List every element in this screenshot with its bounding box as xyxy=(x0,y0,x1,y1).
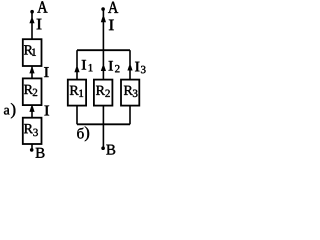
main stem to B (right) xyxy=(102,106,104,149)
resistor R2 (left) xyxy=(23,78,42,105)
main stem wire A to R2 (right) xyxy=(102,9,104,80)
resistor R3 (right) xyxy=(121,80,139,106)
branch wire 1 top xyxy=(76,50,78,79)
branch wire 3 top xyxy=(129,50,131,79)
current arrow I (left top) xyxy=(29,19,34,24)
label R3 (right) xyxy=(124,86,133,95)
current arrow I1 xyxy=(74,67,79,72)
label I3 xyxy=(135,62,139,71)
label R2 (left) xyxy=(24,85,33,94)
node A (left) xyxy=(30,10,34,14)
node A (right) xyxy=(101,7,105,11)
label R1 (left) xyxy=(24,45,33,54)
wire R1-R2 xyxy=(31,66,33,78)
resistor R1 (left) xyxy=(23,39,42,66)
resistor R3 (left) xyxy=(23,118,42,144)
label B (left) xyxy=(36,148,45,158)
wire R3 to B xyxy=(31,144,33,150)
current arrow I (left mid2) xyxy=(29,107,34,112)
resistor R2 (right) xyxy=(94,80,113,106)
label b) xyxy=(77,128,83,139)
label I2 xyxy=(109,61,113,70)
branch wire 1 bottom xyxy=(76,106,78,125)
label R2 (right) xyxy=(96,86,105,95)
label I (left mid1) xyxy=(44,67,49,77)
wire R2-R3 xyxy=(31,105,33,118)
label a) xyxy=(4,108,10,115)
label I (left top) xyxy=(37,19,42,29)
current arrow I (right top) xyxy=(101,17,106,22)
label A (right) xyxy=(108,2,118,13)
label I (left mid2) xyxy=(44,106,49,116)
current arrow I2 xyxy=(101,66,106,71)
wire A to R1 xyxy=(31,12,33,40)
label I (right top) xyxy=(109,20,114,30)
current arrow I (left mid1) xyxy=(29,68,34,73)
resistor R1 (right) xyxy=(68,80,86,106)
label I1 xyxy=(82,60,86,69)
label R3 (left) xyxy=(24,124,33,133)
node B (right) xyxy=(101,146,105,150)
label R1 (right) xyxy=(70,86,79,95)
label B (right) xyxy=(106,145,115,155)
branch wire 3 bottom xyxy=(129,106,131,125)
current arrow I3 xyxy=(127,66,132,71)
bottom bus wire xyxy=(77,123,130,125)
top bus wire xyxy=(77,49,130,51)
node B (left) xyxy=(30,148,34,152)
label A (left) xyxy=(37,1,47,12)
